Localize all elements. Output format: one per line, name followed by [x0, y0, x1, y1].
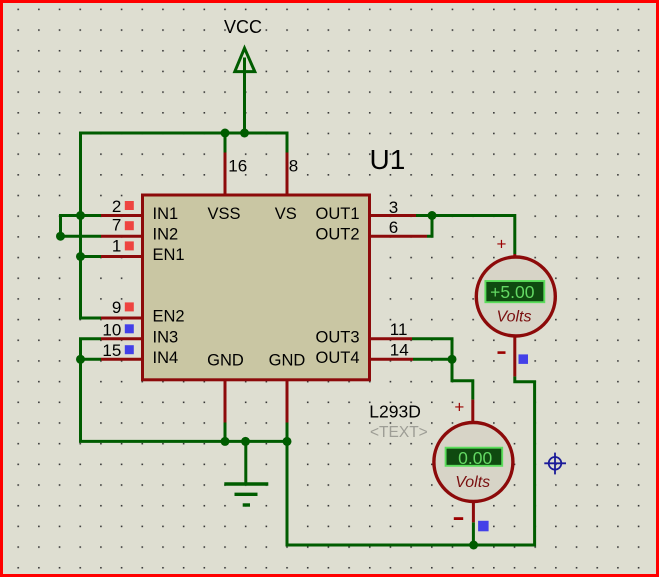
- svg-text:IN4: IN4: [153, 349, 179, 367]
- svg-text:10: 10: [102, 321, 121, 340]
- svg-text:9: 9: [112, 298, 121, 317]
- svg-text:IN1: IN1: [153, 205, 179, 223]
- svg-text:EN1: EN1: [153, 246, 185, 264]
- svg-text:+: +: [454, 397, 464, 416]
- svg-text:3: 3: [389, 198, 398, 217]
- svg-text:VSS: VSS: [207, 205, 240, 223]
- svg-text:OUT3: OUT3: [315, 328, 359, 346]
- svg-text:OUT2: OUT2: [315, 226, 359, 244]
- svg-text:+5.00: +5.00: [490, 282, 535, 302]
- svg-text:L293D: L293D: [369, 402, 421, 422]
- svg-text:<TEXT>: <TEXT>: [370, 424, 428, 441]
- svg-text:GND: GND: [207, 352, 244, 370]
- svg-text:OUT4: OUT4: [315, 349, 359, 367]
- svg-text:6: 6: [389, 218, 398, 237]
- svg-text:Volts: Volts: [497, 308, 532, 325]
- svg-text:0.00: 0.00: [458, 448, 492, 468]
- svg-text:IN2: IN2: [153, 226, 179, 244]
- svg-text:1: 1: [112, 237, 121, 256]
- svg-text:EN2: EN2: [153, 308, 185, 326]
- svg-text:11: 11: [390, 320, 408, 339]
- svg-text:IN3: IN3: [153, 328, 179, 346]
- svg-text:7: 7: [112, 216, 121, 235]
- svg-text:VCC: VCC: [224, 17, 262, 37]
- svg-text:Volts: Volts: [455, 474, 490, 491]
- svg-text:U1: U1: [370, 144, 406, 175]
- svg-text:14: 14: [390, 340, 409, 359]
- svg-text:GND: GND: [269, 352, 306, 370]
- svg-text:VS: VS: [275, 205, 297, 223]
- svg-text:+: +: [497, 235, 507, 254]
- svg-text:OUT1: OUT1: [315, 205, 359, 223]
- svg-text:8: 8: [289, 157, 298, 176]
- svg-text:15: 15: [102, 341, 121, 360]
- svg-text:16: 16: [228, 157, 247, 176]
- svg-text:2: 2: [112, 197, 121, 216]
